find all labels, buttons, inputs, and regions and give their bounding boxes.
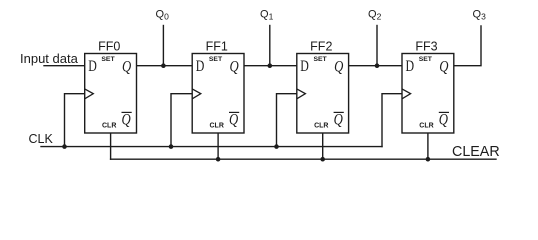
D flip-flop FF2 (297, 39, 349, 133)
svg-text:SET: SET (313, 56, 327, 63)
wire CLK riser to FF2 clock input (277, 94, 297, 147)
wire FF3 CLR drop (427, 133, 429, 159)
FF3 clock edge triangle (402, 89, 411, 99)
wire FF0 Q to FF1 D (net Q0) (137, 65, 193, 67)
svg-text:Q2: Q2 (368, 9, 382, 22)
junction node Q1 (268, 63, 273, 68)
junction CLK bus / FF0 riser (62, 144, 67, 149)
svg-text:CLK: CLK (29, 132, 54, 146)
wire CLK bus (41, 146, 382, 148)
svg-text:CLR: CLR (419, 123, 433, 130)
svg-text:Q0: Q0 (156, 9, 170, 22)
wire Q1 riser to label (269, 26, 271, 66)
svg-text:D: D (88, 58, 97, 75)
junction node Q2 (375, 63, 380, 68)
svg-text:Q: Q (439, 112, 449, 129)
wire Input data to FF0 D (44, 65, 85, 67)
wire CLK riser to FF3 clock input (382, 94, 402, 147)
wire CLEAR bus (111, 158, 496, 160)
wire FF3 Q output (net Q3) (454, 26, 481, 66)
svg-text:D: D (406, 58, 415, 75)
wire FF1 Q to FF2 D (net Q1) (244, 65, 297, 67)
FF2 clock edge triangle (297, 89, 306, 99)
svg-text:Q1: Q1 (260, 9, 274, 22)
svg-text:Q: Q (122, 59, 132, 76)
D flip-flop FF3 (402, 39, 454, 133)
svg-text:Q3: Q3 (473, 9, 487, 22)
FF1 clock edge triangle (192, 89, 201, 99)
junction CLEAR bus / FF3 drop (426, 157, 431, 162)
svg-text:Q: Q (334, 112, 344, 129)
FF0 clock edge triangle (85, 89, 94, 99)
junction CLEAR bus / FF1 drop (216, 157, 221, 162)
svg-text:FF1: FF1 (206, 39, 228, 53)
svg-text:FF3: FF3 (415, 39, 437, 53)
svg-text:CLR: CLR (210, 123, 224, 130)
wire FF2 CLR drop (322, 133, 324, 159)
wire FF2 Q to FF3 D (net Q2) (349, 65, 402, 67)
wire FF1 CLR drop (217, 133, 219, 159)
svg-text:Q: Q (230, 59, 240, 76)
D flip-flop FF1 (192, 39, 244, 133)
svg-text:CLR: CLR (102, 123, 116, 130)
wire CLK riser to FF1 clock input (171, 94, 192, 147)
svg-text:Input data: Input data (20, 51, 79, 66)
svg-text:FF2: FF2 (310, 39, 332, 53)
svg-text:Q: Q (122, 112, 132, 129)
svg-text:D: D (300, 58, 309, 75)
wire Q0 riser to label (162, 26, 164, 66)
svg-text:CLR: CLR (314, 123, 328, 130)
svg-text:Q: Q (229, 112, 239, 129)
svg-text:CLEAR: CLEAR (452, 144, 500, 160)
junction CLEAR bus / FF2 drop (320, 157, 325, 162)
svg-text:SET: SET (101, 56, 115, 63)
junction CLK bus / FF1 riser (169, 144, 174, 149)
svg-text:Q: Q (334, 59, 344, 76)
svg-text:SET: SET (419, 56, 433, 63)
svg-text:SET: SET (209, 56, 223, 63)
svg-text:Q: Q (439, 59, 449, 76)
wire Q2 riser to label (376, 26, 378, 66)
svg-text:D: D (196, 58, 205, 75)
wire CLK riser to FF0 clock input (65, 94, 85, 147)
junction CLK bus / FF2 riser (274, 144, 279, 149)
junction node Q0 (161, 63, 166, 68)
D flip-flop FF0 (85, 39, 137, 133)
wire FF0 CLR drop (110, 133, 112, 159)
svg-text:FF0: FF0 (98, 39, 120, 53)
